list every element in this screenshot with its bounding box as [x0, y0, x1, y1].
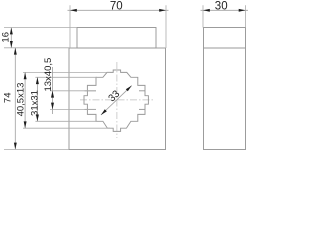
dimension 70 extension line right	[165, 5, 167, 48]
svg-text:74: 74	[2, 93, 13, 104]
dimension 31x31 arrow up	[36, 77, 39, 84]
svg-text:40,5x13: 40,5x13	[16, 83, 27, 117]
svg-text:30: 30	[215, 1, 228, 13]
dimension 74 line	[14, 48, 16, 150]
dimension 70 arrow left	[70, 9, 77, 12]
dimension 30 extension line right	[245, 5, 247, 27]
horizontal centerline	[80, 99, 154, 101]
dimension 74 arrow down	[14, 143, 17, 150]
dimension 33 arrow top right	[126, 86, 132, 92]
dimension 70 extension line left	[69, 5, 71, 48]
aperture inner slot edge left bottom	[85, 108, 97, 110]
cross aperture outline	[84, 70, 148, 131]
dimension 40,5x13 arrow up	[24, 72, 27, 79]
front view body outline	[69, 48, 166, 150]
dimension 16 arrow down	[10, 41, 13, 48]
svg-text:16: 16	[0, 32, 11, 43]
dimension 30 line	[201, 9, 249, 11]
vertical centerline	[116, 62, 118, 138]
dimension 40,5x13 arrow down	[24, 121, 27, 128]
dimension 13x40,5 arrow down outside	[51, 91, 54, 98]
aperture inner slot edge right top	[139, 90, 145, 92]
dimension 13x40,5 arrow up outside	[51, 103, 54, 110]
dimension 70 line	[68, 9, 169, 11]
dimension 30 arrow left	[203, 9, 210, 12]
dimension 30 extension line left	[202, 5, 204, 27]
dimension 30 arrow right	[239, 9, 246, 12]
extension line 13x40,5 bottom	[50, 108, 96, 110]
side view body outline	[204, 28, 246, 150]
dimension 31x31 arrow down	[36, 115, 39, 122]
dimension 13x40,5 line	[52, 67, 54, 114]
extension line body top / 16 bottom / 74 top	[4, 47, 69, 49]
dimension 33 arrow bottom left	[101, 109, 107, 115]
svg-text:70: 70	[110, 1, 123, 13]
dimension 16 arrow up	[10, 28, 13, 35]
aperture inner slot edge right bottom	[139, 108, 145, 110]
extension line 13x40,5 top	[50, 90, 96, 92]
extension line cap top / 16 top	[4, 27, 77, 29]
extension line 40,5x13 bottom	[23, 127, 110, 129]
dimension 16 line	[10, 28, 12, 48]
extension line 40,5x13 top	[23, 71, 110, 73]
aperture inner slot edge left top	[85, 90, 97, 92]
dimension 31x31 line	[36, 77, 38, 121]
dimension 33 diagonal line	[101, 86, 132, 115]
dimension 70 arrow right	[159, 9, 166, 12]
svg-text:31x31: 31x31	[29, 90, 40, 116]
dimension 74 arrow up	[14, 48, 17, 55]
dimension 40,5x13 line	[24, 72, 26, 128]
extension line 74 bottom	[4, 148, 69, 150]
extension line 31x31 top	[35, 76, 97, 78]
extension line 31x31 bottom	[35, 120, 97, 122]
svg-text:13x40,5: 13x40,5	[43, 58, 54, 92]
side view cap parting line	[204, 47, 246, 49]
front view top cap	[77, 28, 156, 49]
